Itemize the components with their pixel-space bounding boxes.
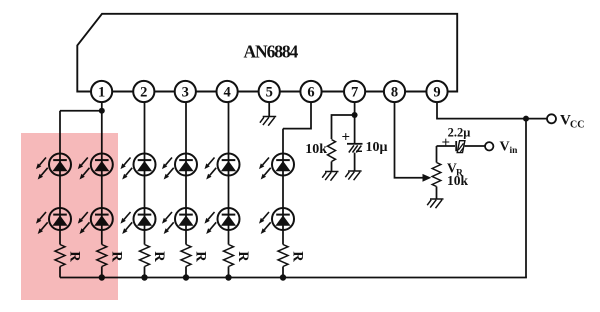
svg-text:V: V <box>500 140 510 155</box>
svg-text:2: 2 <box>140 85 147 101</box>
svg-text:AN6884: AN6884 <box>244 42 299 62</box>
svg-text:10k: 10k <box>447 173 469 188</box>
svg-text:7: 7 <box>351 85 358 101</box>
svg-text:CC: CC <box>570 120 584 131</box>
svg-text:+: + <box>342 130 351 146</box>
svg-text:5: 5 <box>266 85 273 101</box>
svg-text:2.2μ: 2.2μ <box>448 125 471 139</box>
svg-text:R: R <box>193 251 209 262</box>
svg-text:R: R <box>290 251 306 262</box>
svg-text:6: 6 <box>307 85 314 101</box>
svg-text:1: 1 <box>98 85 105 101</box>
svg-text:R: R <box>151 251 167 262</box>
svg-text:8: 8 <box>391 85 398 101</box>
svg-text:3: 3 <box>182 85 189 101</box>
svg-text:R: R <box>235 251 251 262</box>
svg-text:in: in <box>510 146 519 156</box>
svg-text:10μ: 10μ <box>366 140 388 155</box>
svg-text:9: 9 <box>433 85 440 101</box>
svg-text:10k: 10k <box>305 142 327 157</box>
svg-text:4: 4 <box>223 85 230 101</box>
